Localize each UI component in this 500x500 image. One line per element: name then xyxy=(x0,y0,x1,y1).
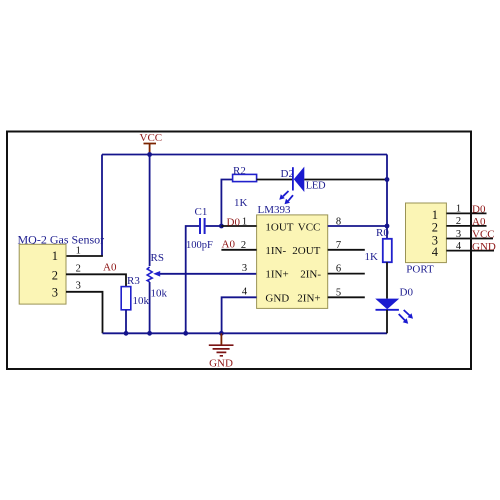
svg-text:3: 3 xyxy=(52,285,58,299)
svg-text:1K: 1K xyxy=(365,251,379,263)
svg-text:2: 2 xyxy=(456,216,461,227)
wire PORT pin1 xyxy=(446,212,486,214)
svg-text:4: 4 xyxy=(432,245,439,259)
svg-text:1IN-: 1IN- xyxy=(265,245,286,257)
svg-text:D0: D0 xyxy=(227,216,241,228)
svg-text:10k: 10k xyxy=(151,288,168,300)
wire C1 left to GND rail xyxy=(186,226,199,333)
wire R3 bottom to GND rail xyxy=(125,310,127,334)
wire A0 from sensor pin 2 to R3 xyxy=(66,274,126,286)
junction node D0 xyxy=(219,224,224,229)
svg-text:RS: RS xyxy=(151,252,164,264)
pin 1 stub LM393 xyxy=(221,225,256,227)
svg-text:2: 2 xyxy=(241,240,246,251)
wire R2 right to LED D2 xyxy=(257,179,293,181)
capacitor C1 xyxy=(186,206,213,251)
svg-text:LM393: LM393 xyxy=(258,204,292,216)
svg-text:4: 4 xyxy=(456,241,462,252)
connector PORT xyxy=(406,203,447,276)
wire PORT pin4 xyxy=(446,250,494,252)
wire LED D0 cathode to GND rail xyxy=(386,310,388,334)
svg-text:100pF: 100pF xyxy=(186,240,213,251)
svg-text:GND: GND xyxy=(265,293,289,305)
pin 5 stub LM393 xyxy=(328,296,365,298)
wire R0 bottom to LED D0 xyxy=(386,262,388,298)
pin 7 stub LM393 xyxy=(328,249,365,251)
svg-text:1: 1 xyxy=(456,204,461,215)
svg-text:C1: C1 xyxy=(195,206,208,218)
svg-text:PORT: PORT xyxy=(406,264,434,276)
resistor R0 xyxy=(365,227,392,263)
pin 6 stub LM393 xyxy=(328,273,365,275)
svg-text:2IN+: 2IN+ xyxy=(297,293,320,305)
svg-text:2IN-: 2IN- xyxy=(300,269,321,281)
power symbol VCC xyxy=(140,132,163,155)
svg-text:1OUT: 1OUT xyxy=(265,221,293,233)
wire R2 left down to node D0 xyxy=(221,180,232,227)
svg-text:GND: GND xyxy=(472,241,496,253)
svg-text:VCC: VCC xyxy=(472,228,495,240)
wire C1 right to node D0 xyxy=(206,225,222,227)
wire VCC top rail xyxy=(102,154,387,156)
svg-text:1: 1 xyxy=(52,249,58,263)
schematic sheet frame xyxy=(7,132,471,370)
resistor R2 xyxy=(233,165,257,209)
svg-text:4: 4 xyxy=(242,287,248,298)
junction pin8-R0 xyxy=(385,224,390,229)
wire RS bottom to GND rail xyxy=(149,282,151,333)
wire VCC branch right vertical xyxy=(386,155,388,239)
svg-text:VCC: VCC xyxy=(140,132,163,144)
svg-text:10k: 10k xyxy=(133,295,150,307)
junction R3-GND xyxy=(124,331,129,336)
svg-text:3: 3 xyxy=(242,263,247,274)
pin 4 stub LM393 to GND rail xyxy=(222,297,257,333)
svg-text:2: 2 xyxy=(76,263,81,274)
connector MQ-2 Gas Sensor xyxy=(18,232,105,304)
pin 2 stub LM393 xyxy=(221,249,256,251)
svg-text:1: 1 xyxy=(76,245,81,256)
svg-text:7: 7 xyxy=(336,240,341,251)
svg-text:LED: LED xyxy=(306,181,326,192)
potentiometer RS xyxy=(147,252,256,300)
svg-text:3: 3 xyxy=(456,229,461,240)
junction GND symbol xyxy=(219,331,224,336)
svg-text:8: 8 xyxy=(336,217,341,228)
svg-text:A0: A0 xyxy=(472,216,486,228)
svg-text:A0: A0 xyxy=(103,262,117,274)
svg-text:D2: D2 xyxy=(281,168,294,180)
junction C1-GND xyxy=(183,331,188,336)
svg-text:R2: R2 xyxy=(233,165,246,177)
LED D0 xyxy=(375,286,413,323)
svg-text:1: 1 xyxy=(242,217,247,228)
wire VCC junction down to RS xyxy=(149,155,151,267)
svg-text:1K: 1K xyxy=(234,197,248,209)
wire PORT pin3 xyxy=(446,238,493,240)
svg-text:R0: R0 xyxy=(376,227,389,239)
svg-text:D0: D0 xyxy=(472,203,486,215)
svg-text:6: 6 xyxy=(336,264,341,275)
wire PORT pin2 xyxy=(446,225,486,227)
svg-text:D0: D0 xyxy=(400,286,414,298)
svg-text:5: 5 xyxy=(336,287,341,298)
LED D2 xyxy=(279,167,326,205)
svg-text:VCC: VCC xyxy=(298,221,321,233)
svg-text:3: 3 xyxy=(76,280,81,291)
svg-text:1IN+: 1IN+ xyxy=(265,269,288,281)
junction RS-GND xyxy=(147,331,152,336)
svg-text:2OUT: 2OUT xyxy=(292,245,320,257)
wire GND bottom rail xyxy=(103,332,388,334)
wire LED D2 anode to VCC branch xyxy=(304,179,387,181)
svg-text:2: 2 xyxy=(52,268,58,282)
junction VCC rail xyxy=(147,152,152,157)
resistor R3 xyxy=(121,275,149,310)
wire sensor pin1 up to VCC rail xyxy=(101,155,103,257)
comparator U1 LM393 xyxy=(257,204,328,309)
svg-text:R3: R3 xyxy=(127,275,140,287)
svg-text:GND: GND xyxy=(209,358,233,370)
ground symbol GND xyxy=(209,333,234,369)
pin 8 stub LM393 xyxy=(328,225,387,227)
svg-text:A0: A0 xyxy=(222,239,236,251)
junction D2 anode xyxy=(385,177,390,182)
wire sensor pin3 to GND rail xyxy=(66,292,103,334)
